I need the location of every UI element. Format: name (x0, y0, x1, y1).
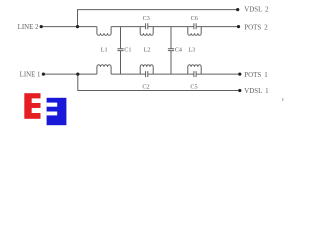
svg-text:C5: C5 (190, 84, 197, 91)
svg-text:POTS 2: POTS 2 (244, 24, 268, 31)
svg-text:L3: L3 (188, 46, 195, 53)
svg-text:L2: L2 (144, 46, 151, 53)
svg-text:C1: C1 (124, 47, 131, 54)
svg-text:C4: C4 (175, 47, 182, 54)
svg-text:VDSL 2: VDSL 2 (244, 6, 269, 13)
svg-text:VDSL 1: VDSL 1 (244, 88, 269, 95)
svg-text:L1: L1 (101, 46, 108, 53)
svg-text:C2: C2 (142, 84, 149, 91)
svg-text:C3: C3 (143, 15, 150, 22)
svg-text:POTS 1: POTS 1 (244, 72, 268, 79)
svg-text:LINE 1: LINE 1 (20, 72, 41, 79)
svg-text:C6: C6 (191, 15, 198, 22)
svg-text:LINE 2: LINE 2 (18, 24, 39, 31)
